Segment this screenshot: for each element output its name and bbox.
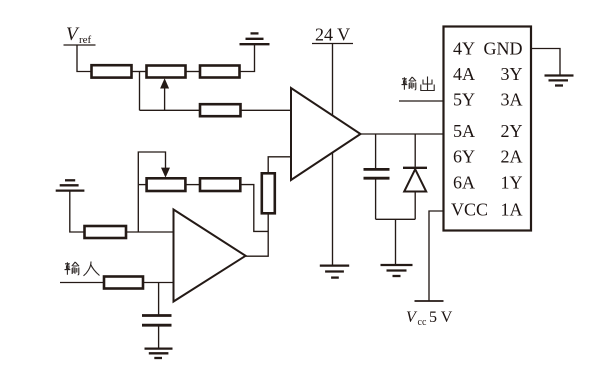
svg-text:GND: GND [484, 39, 523, 59]
svg-text:3Y: 3Y [501, 64, 523, 84]
svg-text:1Y: 1Y [501, 173, 523, 193]
svg-text:4A: 4A [453, 64, 475, 84]
svg-text:3A: 3A [501, 90, 523, 110]
svg-text:5 V: 5 V [429, 309, 453, 326]
svg-text:5Y: 5Y [453, 90, 475, 110]
svg-text:6Y: 6Y [453, 147, 475, 167]
svg-text:1A: 1A [501, 200, 523, 220]
svg-text:24 V: 24 V [315, 25, 350, 45]
svg-text:cc: cc [418, 317, 427, 328]
svg-text:5A: 5A [453, 121, 475, 141]
svg-text:2Y: 2Y [501, 121, 523, 141]
svg-text:2A: 2A [501, 147, 523, 167]
svg-text:ref: ref [79, 34, 92, 46]
svg-text:6A: 6A [453, 173, 475, 193]
svg-text:4Y: 4Y [453, 39, 475, 59]
svg-text:VCC: VCC [451, 200, 488, 220]
